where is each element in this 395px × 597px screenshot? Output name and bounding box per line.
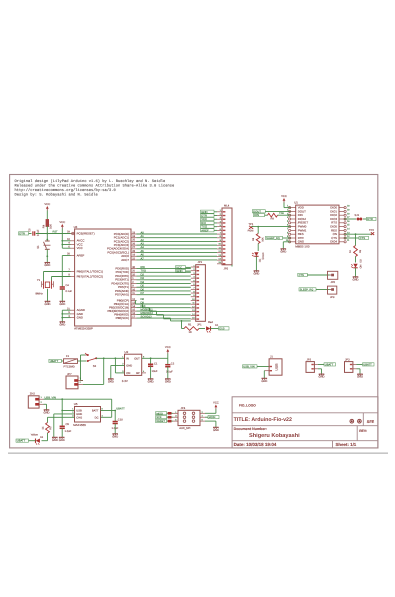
svg-text:MAX1555: MAX1555	[73, 423, 86, 427]
svg-text:SLEEP_RQ: SLEEP_RQ	[266, 237, 279, 240]
svg-text:UBATT: UBATT	[17, 440, 26, 443]
svg-text:GND: GND	[165, 380, 171, 383]
wire U5 CHG to R2	[48, 416, 75, 418]
svg-text:Shigeru Kobayashi: Shigeru Kobayashi	[249, 432, 300, 439]
svg-text:REV:: REV:	[359, 429, 367, 433]
connector JP7	[66, 373, 83, 389]
fuse F1 PTCSMD	[64, 355, 78, 368]
svg-text:GND: GND	[176, 269, 182, 273]
wire AVCC branch 2	[62, 244, 70, 246]
wire C3 to RESET pin	[36, 233, 71, 235]
svg-text:U5: U5	[74, 402, 78, 406]
svg-text:C9: C9	[66, 423, 70, 426]
svg-text:Original design (LilyPad Ardui: Original design (LilyPad Arduino v1.6) b…	[15, 179, 166, 184]
svg-text:JP8: JP8	[331, 281, 336, 284]
logo SFE	[367, 420, 375, 424]
svg-text:GND: GND	[44, 411, 50, 414]
svg-text:GND: GND	[280, 250, 286, 253]
wire GND pins bundle	[62, 309, 70, 311]
svg-text:VCC: VCC	[59, 220, 65, 224]
svg-text:DC: DC	[95, 416, 99, 419]
svg-text:SCK: SCK	[156, 416, 162, 419]
wire junction to R6	[257, 227, 259, 234]
ground below JP3	[357, 374, 363, 379]
svg-text:D6: D6	[141, 288, 145, 291]
svg-text:ADC7: ADC7	[121, 258, 129, 262]
wire U2 ON tie	[115, 372, 124, 374]
svg-text:PB5(SCK): PB5(SCK)	[116, 316, 129, 320]
svg-text:A6: A6	[141, 254, 145, 257]
svg-text:A3: A3	[141, 243, 145, 246]
test point TP2	[369, 229, 374, 235]
svg-text:JP3: JP3	[345, 358, 350, 361]
svg-text:GND: GND	[112, 435, 118, 438]
svg-text:R2: R2	[49, 426, 52, 430]
svg-text:RESET: RESET	[156, 420, 165, 423]
LED D5 Green	[252, 252, 265, 262]
wire SLEEP_RQ to JP9	[316, 289, 330, 291]
wire LED D4 to UBATT flag	[29, 440, 36, 442]
net flag DTR at SJ1	[367, 217, 377, 221]
svg-text:CTS: CTS	[360, 237, 366, 240]
ground below J1	[261, 378, 267, 383]
IC U1 left pins	[286, 205, 309, 244]
svg-text:0.1uF: 0.1uF	[66, 290, 73, 293]
svg-text:GND: GND	[253, 272, 259, 275]
wire ZH2 pin2 to ground	[44, 403, 47, 405]
wire R4 to reset net	[46, 226, 48, 233]
wire D13 to R1	[181, 321, 183, 329]
svg-text:VCC: VCC	[44, 202, 50, 206]
svg-text:GND: GND	[45, 303, 51, 306]
wire VCC to AVCC pins	[61, 229, 63, 249]
svg-text:GND: GND	[59, 303, 65, 306]
svg-text:GND: GND	[213, 429, 219, 432]
capacitor C1 10uF	[148, 358, 158, 378]
svg-text:GND: GND	[59, 439, 65, 442]
svg-text:OUT: OUT	[134, 357, 140, 360]
power VCC (AVCC)	[59, 220, 65, 229]
ground below C1	[148, 379, 154, 384]
ground below C9	[59, 437, 65, 442]
resonator Y1 8MHz	[36, 279, 54, 296]
connector ML4 (JP5)	[217, 204, 232, 270]
svg-text:A1: A1	[141, 235, 145, 238]
svg-text:C1: C1	[154, 362, 158, 365]
wire R8 to DIN pin	[278, 214, 291, 216]
svg-text:ML4: ML4	[224, 204, 230, 207]
svg-text:10K: 10K	[50, 224, 53, 229]
svg-text:A5: A5	[141, 250, 145, 253]
wire S2 alt to JP7	[81, 354, 86, 356]
net flag MOSI	[205, 416, 219, 420]
svg-text:UBATT: UBATT	[116, 408, 125, 411]
svg-text:MISO: MISO	[156, 412, 163, 415]
svg-text:AUX_SPI: AUX_SPI	[179, 427, 190, 430]
LED D3 ON	[351, 259, 362, 269]
svg-text:0.1uF: 0.1uF	[37, 229, 40, 236]
switch S2	[85, 353, 97, 368]
ground below C10	[112, 434, 118, 439]
svg-text:D7: D7	[141, 292, 145, 295]
svg-text:GND: GND	[77, 316, 83, 320]
wire JP2 to UBATT	[318, 364, 324, 366]
wire DTR to C3	[29, 233, 32, 235]
ground below JP4	[213, 427, 219, 432]
resistor R6 10K	[252, 234, 265, 244]
ground below LED D3	[353, 277, 359, 282]
svg-text:D3: D3	[141, 277, 145, 280]
ground below ATmega	[59, 322, 65, 327]
ground below U2	[108, 379, 114, 384]
svg-text:JP9: JP9	[330, 296, 335, 299]
svg-text:TITLE: Arduino-Fio-v22: TITLE: Arduino-Fio-v22	[234, 417, 292, 423]
svg-text:BATT: BATT	[92, 410, 99, 413]
svg-text:1K: 1K	[42, 426, 45, 429]
svg-text:CHG: CHG	[76, 416, 82, 419]
svg-text:D1: D1	[215, 324, 219, 327]
wire LED D5 to ground	[255, 257, 257, 271]
svg-text:Design by: S. Kobayashi and N.: Design by: S. Kobayashi and N. Seidle	[15, 193, 98, 198]
svg-text:PD7(AIN1): PD7(AIN1)	[115, 293, 129, 297]
svg-text:SLEEP_RQ: SLEEP_RQ	[300, 289, 313, 292]
resistor R4 10K	[43, 220, 53, 229]
net flag UBATT at fuse	[49, 359, 62, 363]
connector JP1	[191, 261, 206, 326]
svg-text:UBATT: UBATT	[363, 364, 372, 367]
svg-text:PC6(/RESET): PC6(/RESET)	[77, 231, 95, 235]
wire DIN to R8	[265, 214, 268, 216]
wire U2 GND to ground	[111, 365, 125, 367]
svg-text:TP2: TP2	[369, 229, 374, 232]
net flag DOUT	[252, 209, 265, 213]
svg-text:CTS: CTS	[299, 274, 305, 277]
resistor R2 1K	[42, 423, 53, 434]
svg-text:AREF: AREF	[201, 228, 209, 232]
node D13 junction	[181, 320, 183, 322]
ground below XBee GND	[280, 249, 286, 254]
svg-text:GND: GND	[44, 264, 50, 267]
IC U3 right pins port B	[107, 298, 136, 320]
wire AVCC branch 1	[62, 240, 70, 242]
svg-text:JP1: JP1	[198, 261, 203, 264]
svg-text:D4: D4	[141, 281, 145, 284]
svg-text:UBATT: UBATT	[325, 364, 334, 367]
svg-text:A2: A2	[141, 239, 145, 242]
net flag RESET	[156, 419, 173, 423]
connector J1 USB	[265, 356, 282, 376]
svg-text:DTR: DTR	[19, 232, 25, 236]
wire R1 to LED D1	[199, 328, 205, 330]
capacitor C10 1.0uF	[112, 411, 124, 434]
svg-text:10uF: 10uF	[152, 370, 158, 373]
svg-text:GND: GND	[52, 439, 58, 442]
svg-text:JP1: JP1	[197, 324, 202, 327]
svg-text:TXO: TXO	[141, 270, 146, 273]
title text	[234, 417, 292, 423]
capacitor C3 0.1uF	[29, 228, 40, 236]
svg-text:Y1: Y1	[37, 279, 41, 282]
svg-text:ATMEGA328P: ATMEGA328P	[74, 326, 93, 330]
svg-text:Green: Green	[262, 252, 265, 260]
wire USB_VIN	[44, 398, 112, 400]
connector JP3 battery pads	[345, 358, 357, 372]
wire UBATT to F1	[61, 360, 63, 362]
wire XTAL2 to resonator	[52, 276, 71, 278]
svg-text:GND: GND	[261, 380, 267, 383]
svg-text:C2: C2	[171, 363, 175, 366]
wire CTS to JP8	[307, 274, 329, 276]
svg-text:A0: A0	[141, 231, 145, 234]
svg-text:Sheet: 1/1: Sheet: 1/1	[336, 442, 357, 447]
svg-text:FIO_LOGO: FIO_LOGO	[239, 404, 256, 408]
wire R2 to LED D4	[47, 433, 49, 441]
svg-text:GND: GND	[148, 380, 154, 383]
svg-text:R1: R1	[188, 324, 192, 327]
svg-text:D5: D5	[141, 285, 145, 288]
svg-text:AREF: AREF	[77, 253, 85, 257]
svg-text:U1: U1	[294, 201, 298, 205]
capacitor C2 0.1uF	[165, 358, 175, 378]
svg-text:JP4: JP4	[181, 407, 186, 410]
ground below ZH2	[44, 410, 50, 415]
wire U2 OUT to VCC	[142, 357, 168, 359]
svg-text:TXB: TXB	[279, 212, 284, 215]
svg-text:VCC: VCC	[77, 246, 83, 250]
svg-text:1K: 1K	[189, 331, 192, 334]
resistor R8	[268, 213, 278, 220]
connector ZH2 (USB power)	[28, 392, 43, 408]
svg-text:DTR: DTR	[367, 218, 373, 221]
svg-text:GND: GND	[298, 240, 304, 244]
wire junction to R5	[355, 234, 357, 245]
title block outline	[232, 397, 378, 448]
power VCC at regulator output	[165, 345, 171, 354]
net flags on header top pins	[201, 210, 218, 233]
license info text block	[15, 179, 175, 198]
IC U1 right pins	[330, 205, 350, 244]
wire R5 to LED D3	[355, 257, 357, 263]
wire C4 to ground	[61, 289, 63, 301]
net flag DIN	[254, 213, 265, 217]
LED D1 Red	[206, 321, 219, 333]
wires RXI-D7 to JP1	[137, 266, 191, 295]
wire SJ1 to DTR flag	[363, 218, 367, 220]
svg-text:JP7: JP7	[67, 373, 72, 376]
svg-text:USB_VIN: USB_VIN	[243, 366, 254, 369]
wire XBee GND pin to ground	[283, 241, 290, 243]
svg-text:GND: GND	[126, 365, 132, 368]
svg-text:SJ1: SJ1	[355, 214, 360, 217]
wire R6 to LED D5	[257, 244, 259, 252]
svg-text:VCC: VCC	[213, 400, 219, 404]
connector JP2 battery pads	[306, 358, 318, 372]
svg-text:ZH2: ZH2	[30, 392, 36, 395]
date and sheet row	[234, 442, 357, 447]
svg-text:SFE: SFE	[367, 420, 375, 424]
solder jumper SJ1	[355, 214, 363, 221]
wire resonator to ground	[47, 289, 49, 301]
wire XTAL1 to resonator	[44, 271, 71, 273]
net flag CTS to jumper	[298, 273, 308, 277]
ground below C2	[165, 379, 171, 384]
wire AVCC branch 3	[62, 247, 70, 249]
svg-text:8MHz: 8MHz	[36, 292, 44, 296]
wire JP2 to ground	[318, 368, 322, 370]
page bottom edge shadow	[8, 452, 388, 454]
jumper JP9	[328, 286, 337, 299]
svg-text:GND: GND	[353, 278, 359, 281]
svg-text:USB: USB	[275, 363, 279, 371]
IC U5 MAX1555 charger	[72, 402, 103, 427]
capacitor C9 1.0uF	[60, 411, 72, 438]
net flag UBATT at JP3	[363, 363, 375, 367]
svg-text:VCC: VCC	[165, 345, 171, 349]
svg-text:GND: GND	[108, 380, 114, 383]
svg-text:A7: A7	[141, 257, 145, 260]
IC U3 ATMEGA328P body	[74, 225, 131, 330]
net flag D13	[219, 327, 230, 331]
svg-text:S1: S1	[37, 245, 40, 249]
node reset junction	[46, 233, 48, 235]
svg-text:U2: U2	[125, 350, 129, 354]
svg-text:http://creativecommons.org/lic: http://creativecommons.org/licenses/by-s…	[15, 188, 117, 193]
svg-text:C10: C10	[118, 418, 123, 421]
wire JP3 to ground	[357, 368, 361, 370]
svg-text:PB7(XTAL2/TOSC2): PB7(XTAL2/TOSC2)	[77, 274, 103, 278]
wire F1 to S2	[78, 360, 87, 362]
svg-text:VCC: VCC	[281, 194, 287, 198]
svg-text:D13: D13	[219, 327, 225, 331]
svg-text:C3: C3	[29, 228, 32, 232]
ground below resonator	[45, 301, 51, 306]
wire junction to JP7	[103, 358, 105, 384]
wires A0-A7 to header	[137, 231, 218, 260]
svg-text:BP: BP	[136, 372, 140, 375]
svg-text:Yellow: Yellow	[31, 433, 38, 436]
svg-text:R8: R8	[271, 218, 275, 221]
net flag VCC on JP1	[176, 265, 191, 269]
svg-text:ON: ON	[360, 264, 363, 268]
schematic frame border	[10, 175, 378, 448]
svg-text:JP5: JP5	[224, 267, 229, 270]
capacitor C4 0.1uF	[60, 284, 73, 293]
svg-text:R4: R4	[43, 224, 46, 228]
node ON junction	[355, 233, 357, 235]
resistor R5	[349, 246, 362, 257]
regulator U2 3.3V	[122, 350, 146, 383]
svg-text:C4: C4	[66, 284, 70, 287]
logo FIO_LOGO	[239, 404, 256, 408]
svg-text:Released under the Creative Co: Released under the Creative Commons Attr…	[15, 183, 175, 188]
svg-text:Red: Red	[208, 321, 213, 324]
svg-text:PTCSMD: PTCSMD	[64, 366, 75, 369]
ground left of C9	[52, 437, 58, 442]
power VCC (XBee VDD)	[281, 194, 287, 203]
resistor R1 1K	[184, 324, 199, 335]
wire TP1 to XBee pin	[251, 226, 290, 228]
ground below JP2	[319, 374, 325, 379]
wire S2 to U2 IN	[96, 357, 124, 359]
svg-text:GND: GND	[59, 323, 65, 326]
wires D8-D13 to JP1	[136, 298, 191, 321]
wire DOUT to pin	[265, 210, 290, 212]
IC U1 XBEE module body	[294, 201, 339, 249]
svg-text:GND: GND	[319, 376, 325, 379]
wire VCC to R4	[46, 211, 48, 220]
svg-text:U3: U3	[74, 225, 78, 229]
connector JP4 AUX_SPI	[173, 407, 205, 430]
svg-text:D2: D2	[141, 273, 145, 276]
IC U3 right pins port C	[107, 231, 137, 262]
net flag SLEEP_RQ at XBee	[266, 236, 283, 240]
power VCC (reset pull-up)	[44, 202, 50, 211]
ground right of JP1	[231, 265, 233, 267]
wire LED to D13 flag	[210, 328, 218, 330]
svg-text:PB6(XTAL1/TOSC1): PB6(XTAL1/TOSC1)	[77, 269, 103, 273]
wire ON/SLEEP pin to TP2	[344, 233, 372, 235]
test point TP1	[248, 223, 254, 232]
svg-text:F1: F1	[66, 355, 70, 358]
wire SLEEP_RQ to pin	[283, 237, 291, 239]
ground below LED D5	[253, 271, 259, 276]
net flag SLEEP_RQ to jumper	[299, 288, 316, 292]
IC U3 left pins	[67, 231, 103, 320]
ground below C4	[59, 301, 65, 306]
svg-text:3.3V: 3.3V	[122, 379, 128, 383]
svg-text:S2: S2	[93, 364, 97, 368]
svg-text:RXI: RXI	[141, 266, 146, 269]
net flag MISO	[156, 412, 173, 416]
svg-text:UBATT: UBATT	[50, 360, 59, 363]
net flag UBATT bottom	[16, 439, 29, 443]
wire U5 BATT to UBATT	[101, 410, 116, 412]
svg-text:Document Number:: Document Number:	[234, 427, 267, 431]
ground below S1	[44, 263, 50, 268]
power VCC at JP4	[213, 400, 219, 409]
wire JP4 to ground	[205, 420, 216, 422]
wire LED D3 to ground	[355, 268, 357, 277]
svg-text:MBEE-1X0: MBEE-1X0	[295, 244, 310, 248]
switch S1 (reset button)	[37, 234, 51, 263]
svg-text:JP2: JP2	[307, 358, 312, 361]
svg-text:DIN: DIN	[254, 213, 259, 217]
svg-text:ON: ON	[126, 372, 130, 375]
net flag UBATT at JP2	[324, 363, 336, 367]
jumper JP8	[328, 271, 338, 284]
IC U3 right pins port D	[111, 266, 136, 297]
wire U5 GND to ground	[54, 413, 75, 415]
svg-text:A4: A4	[141, 246, 145, 249]
wire JP4 to VCC	[205, 412, 216, 414]
net flag SCK	[156, 416, 173, 420]
LED D4 Yellow	[31, 433, 44, 444]
wire USB_VIN to U5 USB pin	[61, 399, 63, 410]
net flag GND on JP1	[176, 269, 191, 273]
wire DIO3 pin to SJ1	[344, 218, 356, 220]
svg-text:RST: RST	[53, 230, 59, 233]
svg-text:PGM: PGM	[248, 229, 254, 232]
svg-text:0.1uF: 0.1uF	[166, 371, 173, 374]
svg-text:10K: 10K	[262, 237, 265, 242]
node TP1 junction	[257, 226, 259, 228]
CC license marks	[350, 419, 362, 424]
net flag USB_VIN at USB connector	[243, 365, 258, 369]
wire JP3 to UBATT	[357, 364, 363, 366]
svg-text:GND: GND	[357, 376, 363, 379]
svg-text:DIO4: DIO4	[330, 240, 337, 244]
document number text	[234, 427, 368, 439]
